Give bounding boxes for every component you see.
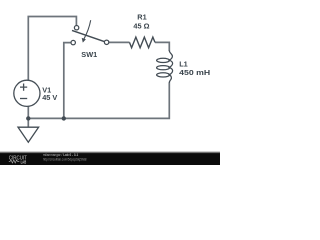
switch terminal right throw <box>104 40 108 44</box>
voltage source V1 circle <box>14 80 40 106</box>
svg-text:LAB: LAB <box>21 159 27 164</box>
junction dot at switch branch node <box>62 116 66 120</box>
inductor L1 loop 1 <box>157 58 170 62</box>
switch terminal lower-left throw <box>71 40 75 44</box>
switch SW1 toggle arrow <box>84 20 91 39</box>
svg-text:SW1: SW1 <box>81 50 97 59</box>
V1 minus sign <box>20 98 27 100</box>
wire from switch right terminal to resistor R1 <box>109 41 130 43</box>
svg-text:45 Ω: 45 Ω <box>133 22 149 31</box>
inductor L1 spine with right bulges <box>169 51 172 83</box>
switch arrow head <box>82 38 86 43</box>
switch terminal top (common) <box>74 26 78 30</box>
wire from inductor bottom down and bottom rail to V1 <box>28 83 169 119</box>
V1 plus sign <box>20 84 27 91</box>
switch SW1 lever <box>72 30 104 41</box>
wire from switch lower-left throw to bottom rail <box>64 43 71 119</box>
svg-text:milanmangar / Lab 6 - 3.1: milanmangar / Lab 6 - 3.1 <box>43 153 78 157</box>
watermark bar <box>0 153 220 165</box>
svg-text:L1: L1 <box>179 59 188 68</box>
wire from resistor right, corner, down to inductor top <box>155 42 169 51</box>
inductor L1 loop 3 <box>157 73 170 77</box>
svg-text:R1: R1 <box>137 13 146 22</box>
resistor R1 zigzag <box>130 37 156 48</box>
CircuitLab logo: zigzag <box>9 160 19 163</box>
svg-text:45 V: 45 V <box>42 93 57 102</box>
svg-text:450 mH: 450 mH <box>179 68 210 77</box>
svg-text:http://circuitlab.com/5dpsp28q: http://circuitlab.com/5dpsp28q5h88 <box>43 157 87 161</box>
wire V1 bottom to rail node <box>27 106 29 118</box>
wire ground stub <box>27 118 29 127</box>
junction dot at V1/ground node <box>26 116 30 120</box>
ground symbol <box>18 127 39 142</box>
wire from V1 plus up, across top, to switch common stub <box>28 17 76 81</box>
inductor L1 loop 2 <box>157 66 170 70</box>
